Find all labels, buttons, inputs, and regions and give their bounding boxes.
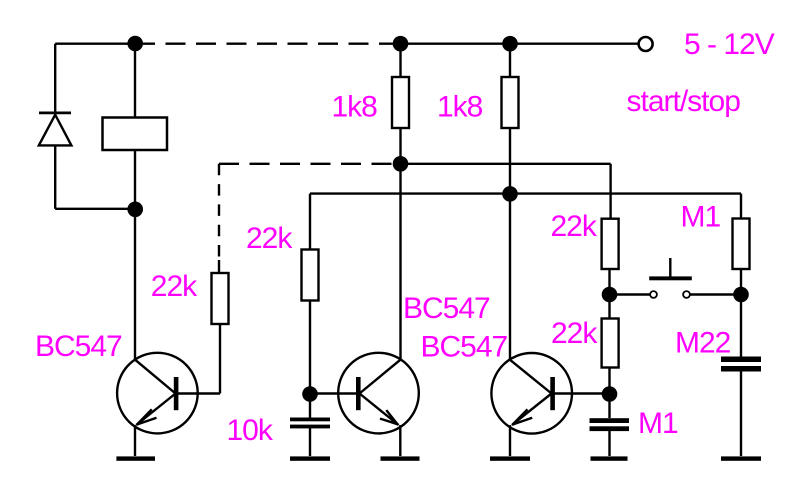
svg-text:5 - 12V: 5 - 12V bbox=[684, 28, 775, 61]
svg-text:BC547: BC547 bbox=[403, 292, 490, 325]
svg-text:M1: M1 bbox=[681, 200, 721, 233]
svg-text:BC547: BC547 bbox=[35, 330, 122, 363]
svg-text:22k: 22k bbox=[246, 222, 293, 255]
svg-text:22k: 22k bbox=[151, 270, 198, 303]
svg-text:1k8: 1k8 bbox=[437, 90, 483, 123]
svg-text:BC547: BC547 bbox=[421, 330, 508, 363]
svg-text:10k: 10k bbox=[227, 414, 274, 447]
svg-text:M22: M22 bbox=[675, 326, 731, 359]
svg-text:M1: M1 bbox=[638, 407, 678, 440]
svg-text:22k: 22k bbox=[551, 210, 598, 243]
svg-text:1k8: 1k8 bbox=[332, 90, 378, 123]
svg-text:22k: 22k bbox=[551, 317, 598, 350]
svg-text:start/stop: start/stop bbox=[627, 85, 741, 118]
